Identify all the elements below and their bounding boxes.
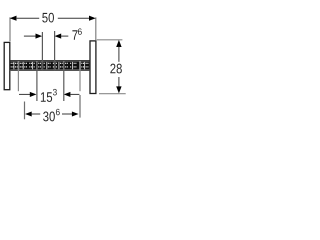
dim 15/3: right tail [70, 93, 79, 95]
dim 30/6: left arrow (points left) [25, 111, 32, 116]
dim 7/6: right tail [61, 35, 69, 37]
dim 7/6: left arrow (points right) [36, 34, 43, 39]
dim 7/6: left extension line [41, 32, 43, 71]
dim 30/6: superscript 6 [56, 109, 60, 116]
dim 15/3: value text 15 [41, 92, 52, 102]
dim 7/6: right extension line [54, 31, 56, 71]
dim 28: bottom extension line [99, 93, 126, 95]
dim 28: top extension line [97, 39, 123, 41]
dim 15/3: right arrow (points left) [64, 92, 71, 97]
right flange (end tab) of profile [90, 41, 96, 94]
dim 50: left extension line [9, 17, 11, 41]
dim 30/6: left extension line [24, 102, 26, 120]
dim 50: left tail [16, 17, 39, 19]
dim 15/3: left tail [19, 93, 30, 95]
dim 30/6: right extension line [79, 95, 81, 118]
dim 7/6: right arrow (points left) [55, 34, 62, 39]
dim 50: right arrow [89, 16, 96, 21]
profile bar bottom edge [10, 69, 90, 71]
dim 30/6: value text 30 [43, 112, 55, 122]
dim 30/6: right arrow (points right) [72, 111, 79, 116]
dim 28: top arrow (points up) [116, 40, 121, 47]
dim 15/3: left arrow (points right) [30, 92, 37, 97]
dim 50: value text [42, 13, 54, 23]
dim 28: value text [110, 64, 122, 74]
dim 15/3: left extension line [36, 61, 38, 101]
profile bar top edge [10, 60, 90, 62]
dim 28: upper line segment [118, 47, 120, 62]
dim 50: right tail [58, 17, 90, 19]
dim 50: right extension line [95, 17, 97, 40]
dim 15/3: stub extension line left [17, 61, 19, 91]
dim 28: lower line segment [118, 77, 120, 87]
dim 15/3: superscript 3 [53, 89, 57, 96]
dim 28: bottom arrow (points down) [116, 86, 121, 93]
dim 30/6: right tail [62, 113, 72, 115]
dim 30/6: left tail [31, 113, 40, 115]
dim 15/3: stub extension line right [79, 61, 81, 91]
dim 7/6: left tail [24, 35, 36, 37]
dim 7/6: value text 7 [72, 30, 77, 39]
dim 7/6: superscript 6 [78, 28, 82, 35]
dim 15/3: right extension line [63, 61, 65, 101]
profile sealing band (dotted rubber section) [10, 61, 89, 69]
dim 50: left arrow [10, 16, 17, 21]
left flange (end tab) of profile [4, 42, 10, 89]
